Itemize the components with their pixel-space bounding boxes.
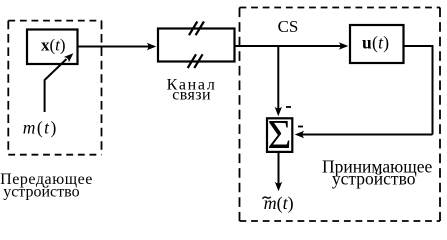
svg-text:u(t): u(t): [362, 33, 390, 53]
svg-text:m(t): m(t): [264, 193, 294, 214]
svg-text:m(t): m(t): [23, 118, 58, 138]
svg-text:устройство: устройство: [332, 168, 416, 188]
svg-text:устройство: устройство: [3, 184, 79, 201]
svg-text:x(t): x(t): [41, 35, 66, 54]
svg-text:Σ: Σ: [267, 111, 291, 157]
svg-text:CS: CS: [278, 17, 299, 36]
svg-text:связи: связи: [172, 86, 211, 103]
